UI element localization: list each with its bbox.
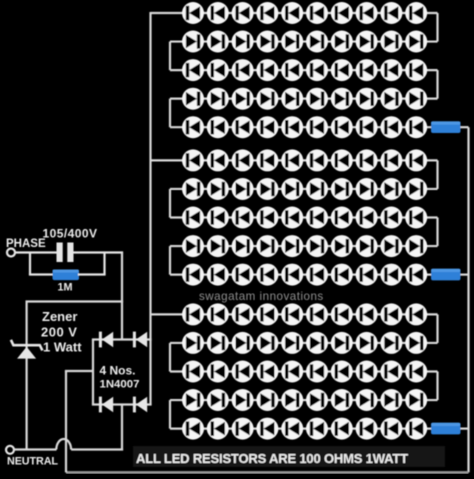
LED row 4 #10 xyxy=(405,88,427,110)
LED row 6 #9 xyxy=(380,149,402,171)
wire: resistor 1 to right bus xyxy=(461,126,469,128)
LED row 7 #8 xyxy=(356,178,378,200)
wire: left bracket rows 12-13 xyxy=(169,343,171,372)
LED row 15 #3 xyxy=(232,418,254,440)
LED row 8 #4 xyxy=(256,207,278,229)
wire: LED row 3 rail xyxy=(170,69,438,71)
LED row 1 #5 xyxy=(281,2,303,24)
LED row 6 #6 xyxy=(306,149,328,171)
wire: right bracket rows 11-12 xyxy=(436,314,438,343)
LED row 2 #6 xyxy=(306,31,328,53)
LED row 9 #9 xyxy=(380,235,402,257)
LED row 10 #10 xyxy=(405,264,427,286)
LED row 14 #4 xyxy=(256,389,278,411)
LED row 8 #8 xyxy=(356,207,378,229)
wire: LED row 12 rail xyxy=(170,342,438,344)
svg-text:swagatam innovations: swagatam innovations xyxy=(199,290,324,303)
LED row 15 #1 xyxy=(182,418,204,440)
resistor 100 ohm 1W (string 3) xyxy=(431,423,461,435)
LED row 12 #8 xyxy=(356,332,378,354)
LED row 14 #9 xyxy=(380,389,402,411)
wire: DC- return drop (passes under neutral hop) xyxy=(65,371,67,472)
LED row 14 #2 xyxy=(207,389,229,411)
svg-text:NEUTRAL: NEUTRAL xyxy=(7,456,58,468)
LED row 15 #8 xyxy=(356,418,378,440)
LED row 11 #6 xyxy=(306,303,328,325)
LED row 5 #2 xyxy=(207,116,229,138)
LED row 14 #6 xyxy=(306,389,328,411)
LED row 12 #3 xyxy=(232,332,254,354)
LED row 8 #10 xyxy=(405,207,427,229)
LED row 6 #1 xyxy=(182,149,204,171)
LED row 12 #10 xyxy=(405,332,427,354)
wire: 1M branch left horizontal xyxy=(29,273,54,275)
wire: positive supply bus (left of LED array, down to bridge right rail) xyxy=(149,12,151,405)
LED row 1 #4 xyxy=(256,2,278,24)
LED row 13 #8 xyxy=(356,361,378,383)
LED row 5 #6 xyxy=(306,116,328,138)
wire: LED row 6 rail xyxy=(151,159,438,161)
wire: right bracket rows 3-4 xyxy=(436,70,438,99)
LED row 8 #3 xyxy=(232,207,254,229)
LED row 1 #2 xyxy=(207,2,229,24)
LED row 8 #9 xyxy=(380,207,402,229)
LED row 4 #6 xyxy=(306,88,328,110)
LED row 1 #8 xyxy=(356,2,378,24)
wire: left bracket rows 4-5 xyxy=(169,99,171,128)
LED row 11 #9 xyxy=(380,303,402,325)
LED row 13 #3 xyxy=(232,361,254,383)
LED row 11 #4 xyxy=(256,303,278,325)
LED row 10 #2 xyxy=(207,264,229,286)
LED row 13 #5 xyxy=(281,361,303,383)
LED row 15 #10 xyxy=(405,418,427,440)
wire: negative return bus (right edge) xyxy=(467,127,469,472)
LED row 9 #1 xyxy=(182,235,204,257)
caption panel xyxy=(133,446,445,467)
LED row 4 #5 xyxy=(281,88,303,110)
LED row 4 #8 xyxy=(356,88,378,110)
LED row 11 #7 xyxy=(331,303,353,325)
LED row 10 #6 xyxy=(306,264,328,286)
wire: capacitor to node xyxy=(74,251,124,253)
wire: phase to capacitor xyxy=(15,251,57,253)
wire: LED row 15 rail xyxy=(170,428,433,430)
wire: neutral hop to bridge AC2 xyxy=(71,448,123,450)
LED row 3 #9 xyxy=(380,59,402,81)
resistor 100 ohm 1W (string 2) xyxy=(431,269,461,281)
LED row 5 #4 xyxy=(256,116,278,138)
resistor R1 1M xyxy=(53,270,80,281)
LED row 5 #7 xyxy=(331,116,353,138)
LED row 14 #1 xyxy=(182,389,204,411)
LED row 7 #9 xyxy=(380,178,402,200)
wire: LED row 5 rail xyxy=(170,126,433,128)
LED row 11 #5 xyxy=(281,303,303,325)
svg-text:Zener: Zener xyxy=(42,309,77,324)
LED row 2 #1 xyxy=(182,31,204,53)
LED row 4 #4 xyxy=(256,88,278,110)
LED row 4 #2 xyxy=(207,88,229,110)
LED row 5 #3 xyxy=(232,116,254,138)
wire: zener branch vertical xyxy=(26,302,28,451)
LED row 4 #7 xyxy=(331,88,353,110)
LED row 12 #4 xyxy=(256,332,278,354)
LED row 7 #4 xyxy=(256,178,278,200)
LED row 2 #7 xyxy=(331,31,353,53)
LED row 1 #3 xyxy=(232,2,254,24)
wire: neutral hop over return drop xyxy=(56,439,71,450)
LED row 3 #3 xyxy=(232,59,254,81)
wire: LED row 11 rail xyxy=(151,313,438,315)
svg-text:105/400V: 105/400V xyxy=(43,227,98,241)
LED row 3 #10 xyxy=(405,59,427,81)
LED row 7 #5 xyxy=(281,178,303,200)
LED row 15 #5 xyxy=(281,418,303,440)
wire: right bracket rows 6-7 xyxy=(436,160,438,189)
terminal: NEUTRAL input xyxy=(6,446,14,454)
wire: node to bridge AC1 vertical xyxy=(121,253,123,341)
LED row 7 #1 xyxy=(182,178,204,200)
LED row 7 #10 xyxy=(405,178,427,200)
LED row 10 #7 xyxy=(331,264,353,286)
LED row 13 #2 xyxy=(207,361,229,383)
LED row 1 #6 xyxy=(306,2,328,24)
LED row 10 #9 xyxy=(380,264,402,286)
wire: resistor 3 to right bus xyxy=(461,428,469,430)
wire: neutral terminal to hop xyxy=(14,448,57,450)
LED row 2 #8 xyxy=(356,31,378,53)
LED row 13 #9 xyxy=(380,361,402,383)
LED row 13 #1 xyxy=(182,361,204,383)
LED row 6 #5 xyxy=(281,149,303,171)
LED row 11 #1 xyxy=(182,303,204,325)
svg-text:1 Watt: 1 Watt xyxy=(43,339,82,354)
wire: bridge left rail xyxy=(92,340,94,405)
LED row 9 #5 xyxy=(281,235,303,257)
LED row 8 #2 xyxy=(207,207,229,229)
LED row 11 #3 xyxy=(232,303,254,325)
LED row 13 #10 xyxy=(405,361,427,383)
wire: bottom return rail xyxy=(66,471,469,474)
LED row 13 #6 xyxy=(306,361,328,383)
wire: LED row 7 rail xyxy=(170,188,438,190)
wire: bridge DC- tee to return drop xyxy=(65,370,93,372)
wire: LED row 1 rail xyxy=(151,12,438,14)
wire: 1M branch right riser xyxy=(103,253,105,275)
LED row 9 #3 xyxy=(232,235,254,257)
wire: LED row 2 rail xyxy=(170,40,438,42)
LED row 4 #9 xyxy=(380,88,402,110)
wire: left bracket rows 2-3 xyxy=(169,42,171,71)
LED row 3 #7 xyxy=(331,59,353,81)
LED row 9 #7 xyxy=(331,235,353,257)
wire: LED row 10 rail xyxy=(170,274,433,276)
LED row 1 #9 xyxy=(380,2,402,24)
zener diode ZD1 200V 1W xyxy=(11,340,43,359)
LED row 12 #9 xyxy=(380,332,402,354)
LED row 2 #5 xyxy=(281,31,303,53)
LED row 2 #4 xyxy=(256,31,278,53)
diode D4 1N4007 (bridge bottom-right) xyxy=(133,397,147,413)
wire: LED row 13 rail xyxy=(170,370,438,372)
LED row 2 #9 xyxy=(380,31,402,53)
LED row 3 #2 xyxy=(207,59,229,81)
LED row 15 #4 xyxy=(256,418,278,440)
capacitor C1 105/400V xyxy=(57,243,74,263)
wire: resistor 2 to right bus xyxy=(461,274,469,276)
label Zener 200 V 1 Watt xyxy=(41,309,82,354)
LED row 9 #8 xyxy=(356,235,378,257)
LED row 8 #1 xyxy=(182,207,204,229)
LED row 6 #10 xyxy=(405,149,427,171)
LED row 2 #10 xyxy=(405,31,427,53)
label 4 Nos. 1N4007 xyxy=(100,364,140,391)
LED row 9 #6 xyxy=(306,235,328,257)
LED row 6 #4 xyxy=(256,149,278,171)
LED row 13 #7 xyxy=(331,361,353,383)
LED row 12 #2 xyxy=(207,332,229,354)
LED row 6 #8 xyxy=(356,149,378,171)
LED row 3 #6 xyxy=(306,59,328,81)
LED row 8 #7 xyxy=(331,207,353,229)
LED row 11 #10 xyxy=(405,303,427,325)
LED row 5 #5 xyxy=(281,116,303,138)
wire: left bracket rows 7-8 xyxy=(169,189,171,218)
LED row 12 #7 xyxy=(331,332,353,354)
LED row 15 #2 xyxy=(207,418,229,440)
LED row 3 #1 xyxy=(182,59,204,81)
LED row 9 #4 xyxy=(256,235,278,257)
diode D1 1N4007 (bridge top-left) xyxy=(99,332,113,348)
wire: LED row 4 rail xyxy=(170,98,438,100)
LED row 8 #5 xyxy=(281,207,303,229)
LED row 7 #3 xyxy=(232,178,254,200)
wire: bridge AC2 (bottom middle) to neutral xyxy=(121,405,123,451)
LED row 12 #1 xyxy=(182,332,204,354)
LED row 2 #3 xyxy=(232,31,254,53)
LED row 11 #2 xyxy=(207,303,229,325)
LED row 1 #10 xyxy=(405,2,427,24)
LED row 4 #3 xyxy=(232,88,254,110)
wire: bridge bottom row xyxy=(92,403,152,405)
LED row 11 #8 xyxy=(356,303,378,325)
LED row 7 #6 xyxy=(306,178,328,200)
LED row 1 #1 xyxy=(182,2,204,24)
LED row 10 #4 xyxy=(256,264,278,286)
LED row 15 #7 xyxy=(331,418,353,440)
svg-text:4 Nos.: 4 Nos. xyxy=(100,364,136,378)
wire: 1M branch right horizontal xyxy=(78,273,106,275)
LED row 3 #8 xyxy=(356,59,378,81)
wire: LED row 14 rail xyxy=(170,399,438,401)
LED row 12 #5 xyxy=(281,332,303,354)
svg-text:ALL LED RESISTORS ARE 100 OHMS: ALL LED RESISTORS ARE 100 OHMS 1WATT xyxy=(136,451,408,466)
LED row 3 #4 xyxy=(256,59,278,81)
LED row 14 #10 xyxy=(405,389,427,411)
wire: zener branch horizontal xyxy=(26,300,124,302)
LED row 4 #1 xyxy=(182,88,204,110)
LED row 6 #3 xyxy=(232,149,254,171)
LED row 8 #6 xyxy=(306,207,328,229)
LED row 14 #3 xyxy=(232,389,254,411)
diode D2 1N4007 (bridge top-right) xyxy=(133,332,147,348)
svg-text:1M: 1M xyxy=(58,282,73,294)
LED row 10 #5 xyxy=(281,264,303,286)
LED row 9 #10 xyxy=(405,235,427,257)
LED row 6 #2 xyxy=(207,149,229,171)
svg-text:1N4007: 1N4007 xyxy=(100,379,140,391)
LED row 2 #2 xyxy=(207,31,229,53)
LED row 10 #1 xyxy=(182,264,204,286)
diode D3 1N4007 (bridge bottom-left) xyxy=(99,397,113,413)
LED row 5 #1 xyxy=(182,116,204,138)
LED row 15 #9 xyxy=(380,418,402,440)
LED row 7 #2 xyxy=(207,178,229,200)
LED row 13 #4 xyxy=(256,361,278,383)
wire: bridge top row xyxy=(92,338,152,340)
resistor 100 ohm 1W (string 1) xyxy=(431,121,461,133)
LED row 14 #7 xyxy=(331,389,353,411)
LED row 5 #9 xyxy=(380,116,402,138)
LED row 9 #2 xyxy=(207,235,229,257)
svg-text:200 V: 200 V xyxy=(41,324,77,339)
LED row 14 #8 xyxy=(356,389,378,411)
LED row 5 #10 xyxy=(405,116,427,138)
LED row 15 #6 xyxy=(306,418,328,440)
LED row 1 #7 xyxy=(331,2,353,24)
svg-text:PHASE: PHASE xyxy=(6,238,46,250)
terminal: PHASE input xyxy=(7,249,15,257)
LED row 7 #7 xyxy=(331,178,353,200)
LED row 5 #8 xyxy=(356,116,378,138)
LED row 3 #5 xyxy=(281,59,303,81)
wire: LED row 9 rail xyxy=(170,245,438,247)
LED row 10 #3 xyxy=(232,264,254,286)
LED row 12 #6 xyxy=(306,332,328,354)
wire: right bracket rows 1-2 xyxy=(436,13,438,42)
wire: right bracket rows 8-9 xyxy=(436,218,438,247)
wire: left bracket rows 14-15 xyxy=(169,400,171,429)
LED row 6 #7 xyxy=(331,149,353,171)
wire: LED row 8 rail xyxy=(170,216,438,218)
LED row 14 #5 xyxy=(281,389,303,411)
wire: right bracket rows 13-14 xyxy=(436,372,438,401)
wire: 1M branch left drop xyxy=(29,253,31,275)
LED row 10 #8 xyxy=(356,264,378,286)
wire: left bracket rows 9-10 xyxy=(169,246,171,275)
